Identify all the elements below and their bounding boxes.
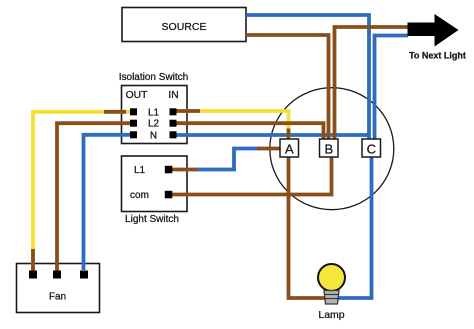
wire brown SOURCE to node B: [246, 35, 329, 140]
wire brown Light Switch com to node B: [170, 157, 332, 195]
wire brown L2 IN to node B: [173, 123, 324, 140]
node C: [362, 139, 381, 157]
svg-text:C: C: [367, 142, 376, 157]
terminal Fan 2: [53, 271, 61, 279]
svg-text:OUT: OUT: [126, 90, 148, 101]
svg-text:IN: IN: [168, 90, 178, 101]
terminal Fan 1: [29, 271, 37, 279]
lamp bulb: [318, 264, 345, 291]
terminal Isolation IN L1: [170, 108, 177, 115]
terminal Isolation IN N: [170, 131, 177, 138]
svg-text:com: com: [130, 190, 149, 201]
terminal Isolation IN L2: [170, 120, 177, 127]
terminal Isolation OUT N: [130, 131, 137, 138]
wire blue node C to arrow: [375, 36, 409, 141]
wire yellow L1 IN to node A: [173, 111, 289, 132]
terminal Light Switch L1: [165, 166, 173, 174]
box Light Switch: [122, 156, 188, 212]
box SOURCE: [122, 8, 246, 42]
svg-text:N: N: [150, 130, 157, 141]
terminal Fan 3: [80, 271, 88, 279]
wire brown node B to arrow: [335, 27, 409, 140]
svg-text:A: A: [285, 142, 294, 157]
wire blue Light Switch L1 to node A: [195, 149, 260, 170]
wire brown sleeve Light Switch L1: [171, 168, 197, 172]
wire brown sleeve left of node A: [257, 147, 281, 151]
lamp base: [324, 291, 339, 305]
svg-text:L1: L1: [148, 107, 160, 118]
wire brown sleeve L1 IN: [176, 109, 200, 113]
wire blue SOURCE to node C: [246, 15, 369, 140]
wire blue node C to lamp: [338, 156, 372, 298]
box Isolation Switch: [122, 86, 188, 144]
svg-text:L1: L1: [134, 165, 146, 176]
wire brown node A to lamp: [289, 157, 325, 298]
wire blue N OUT to Fan: [84, 135, 134, 270]
box Fan: [17, 264, 100, 313]
wire yellow L1 OUT to Fan: [33, 112, 134, 270]
svg-text:Light Switch: Light Switch: [125, 214, 179, 225]
node A: [280, 139, 299, 157]
svg-text:To Next Light: To Next Light: [409, 50, 466, 60]
terminal Isolation OUT L1: [130, 108, 137, 115]
wire brown sleeve above node A: [287, 129, 291, 141]
svg-text:SOURCE: SOURCE: [162, 21, 207, 33]
svg-text:Lamp: Lamp: [318, 309, 344, 321]
node B: [320, 139, 339, 157]
terminal Isolation OUT L2: [130, 120, 137, 127]
junction circle (ceiling rose): [270, 88, 394, 210]
wire blue N IN joining C drop: [176, 133, 371, 137]
wire brown L2 OUT to Fan: [57, 123, 134, 271]
wire brown sleeve to Fan: [31, 249, 35, 271]
svg-text:B: B: [324, 142, 333, 157]
wire brown sleeve L1 OUT: [104, 110, 126, 114]
arrow To Next Light: [408, 14, 459, 47]
svg-text:Fan: Fan: [49, 292, 66, 303]
terminal Light Switch com: [165, 191, 173, 199]
svg-text:Isolation Switch: Isolation Switch: [119, 72, 188, 83]
svg-text:L2: L2: [148, 119, 160, 130]
